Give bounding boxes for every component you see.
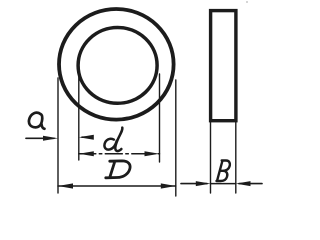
label a: [28, 112, 46, 129]
arrowhead B right pointing left: [236, 181, 251, 186]
outer circle of ring (front view): [59, 9, 174, 120]
arrowhead d right end: [145, 151, 160, 156]
dimension line D: [58, 185, 176, 187]
extension line inner-left d: [78, 72, 80, 160]
dimension line d: [79, 153, 160, 155]
extension line outer-left D: [57, 78, 59, 193]
inner circle of ring (front view): [78, 28, 157, 104]
arrowhead D left end: [58, 183, 73, 188]
arrowhead a right-pointing at x=58: [43, 136, 58, 141]
label B (italic): [217, 161, 230, 182]
dimension line B middle: [211, 183, 236, 185]
rectangle side view: [211, 11, 236, 121]
arrowhead a left-pointing at x=78.8: [79, 135, 94, 140]
speck top right: [246, 1, 248, 3]
dimension line a (left part): [26, 137, 54, 139]
extension line inner-right d: [159, 74, 161, 162]
extension line rect-left B: [210, 122, 212, 193]
dimension line B right tail: [239, 183, 262, 185]
arrowhead D right end: [161, 183, 176, 188]
arrowhead B left pointing right: [196, 181, 211, 186]
extension line rect-right B: [235, 122, 237, 193]
label d (cursive): [104, 128, 122, 151]
dimension line a (right tail): [82, 136, 90, 138]
extension line outer-right D: [175, 80, 177, 196]
dimension line B left tail: [181, 183, 207, 185]
label D (italic): [106, 161, 130, 178]
arrowhead d left end: [79, 151, 94, 156]
